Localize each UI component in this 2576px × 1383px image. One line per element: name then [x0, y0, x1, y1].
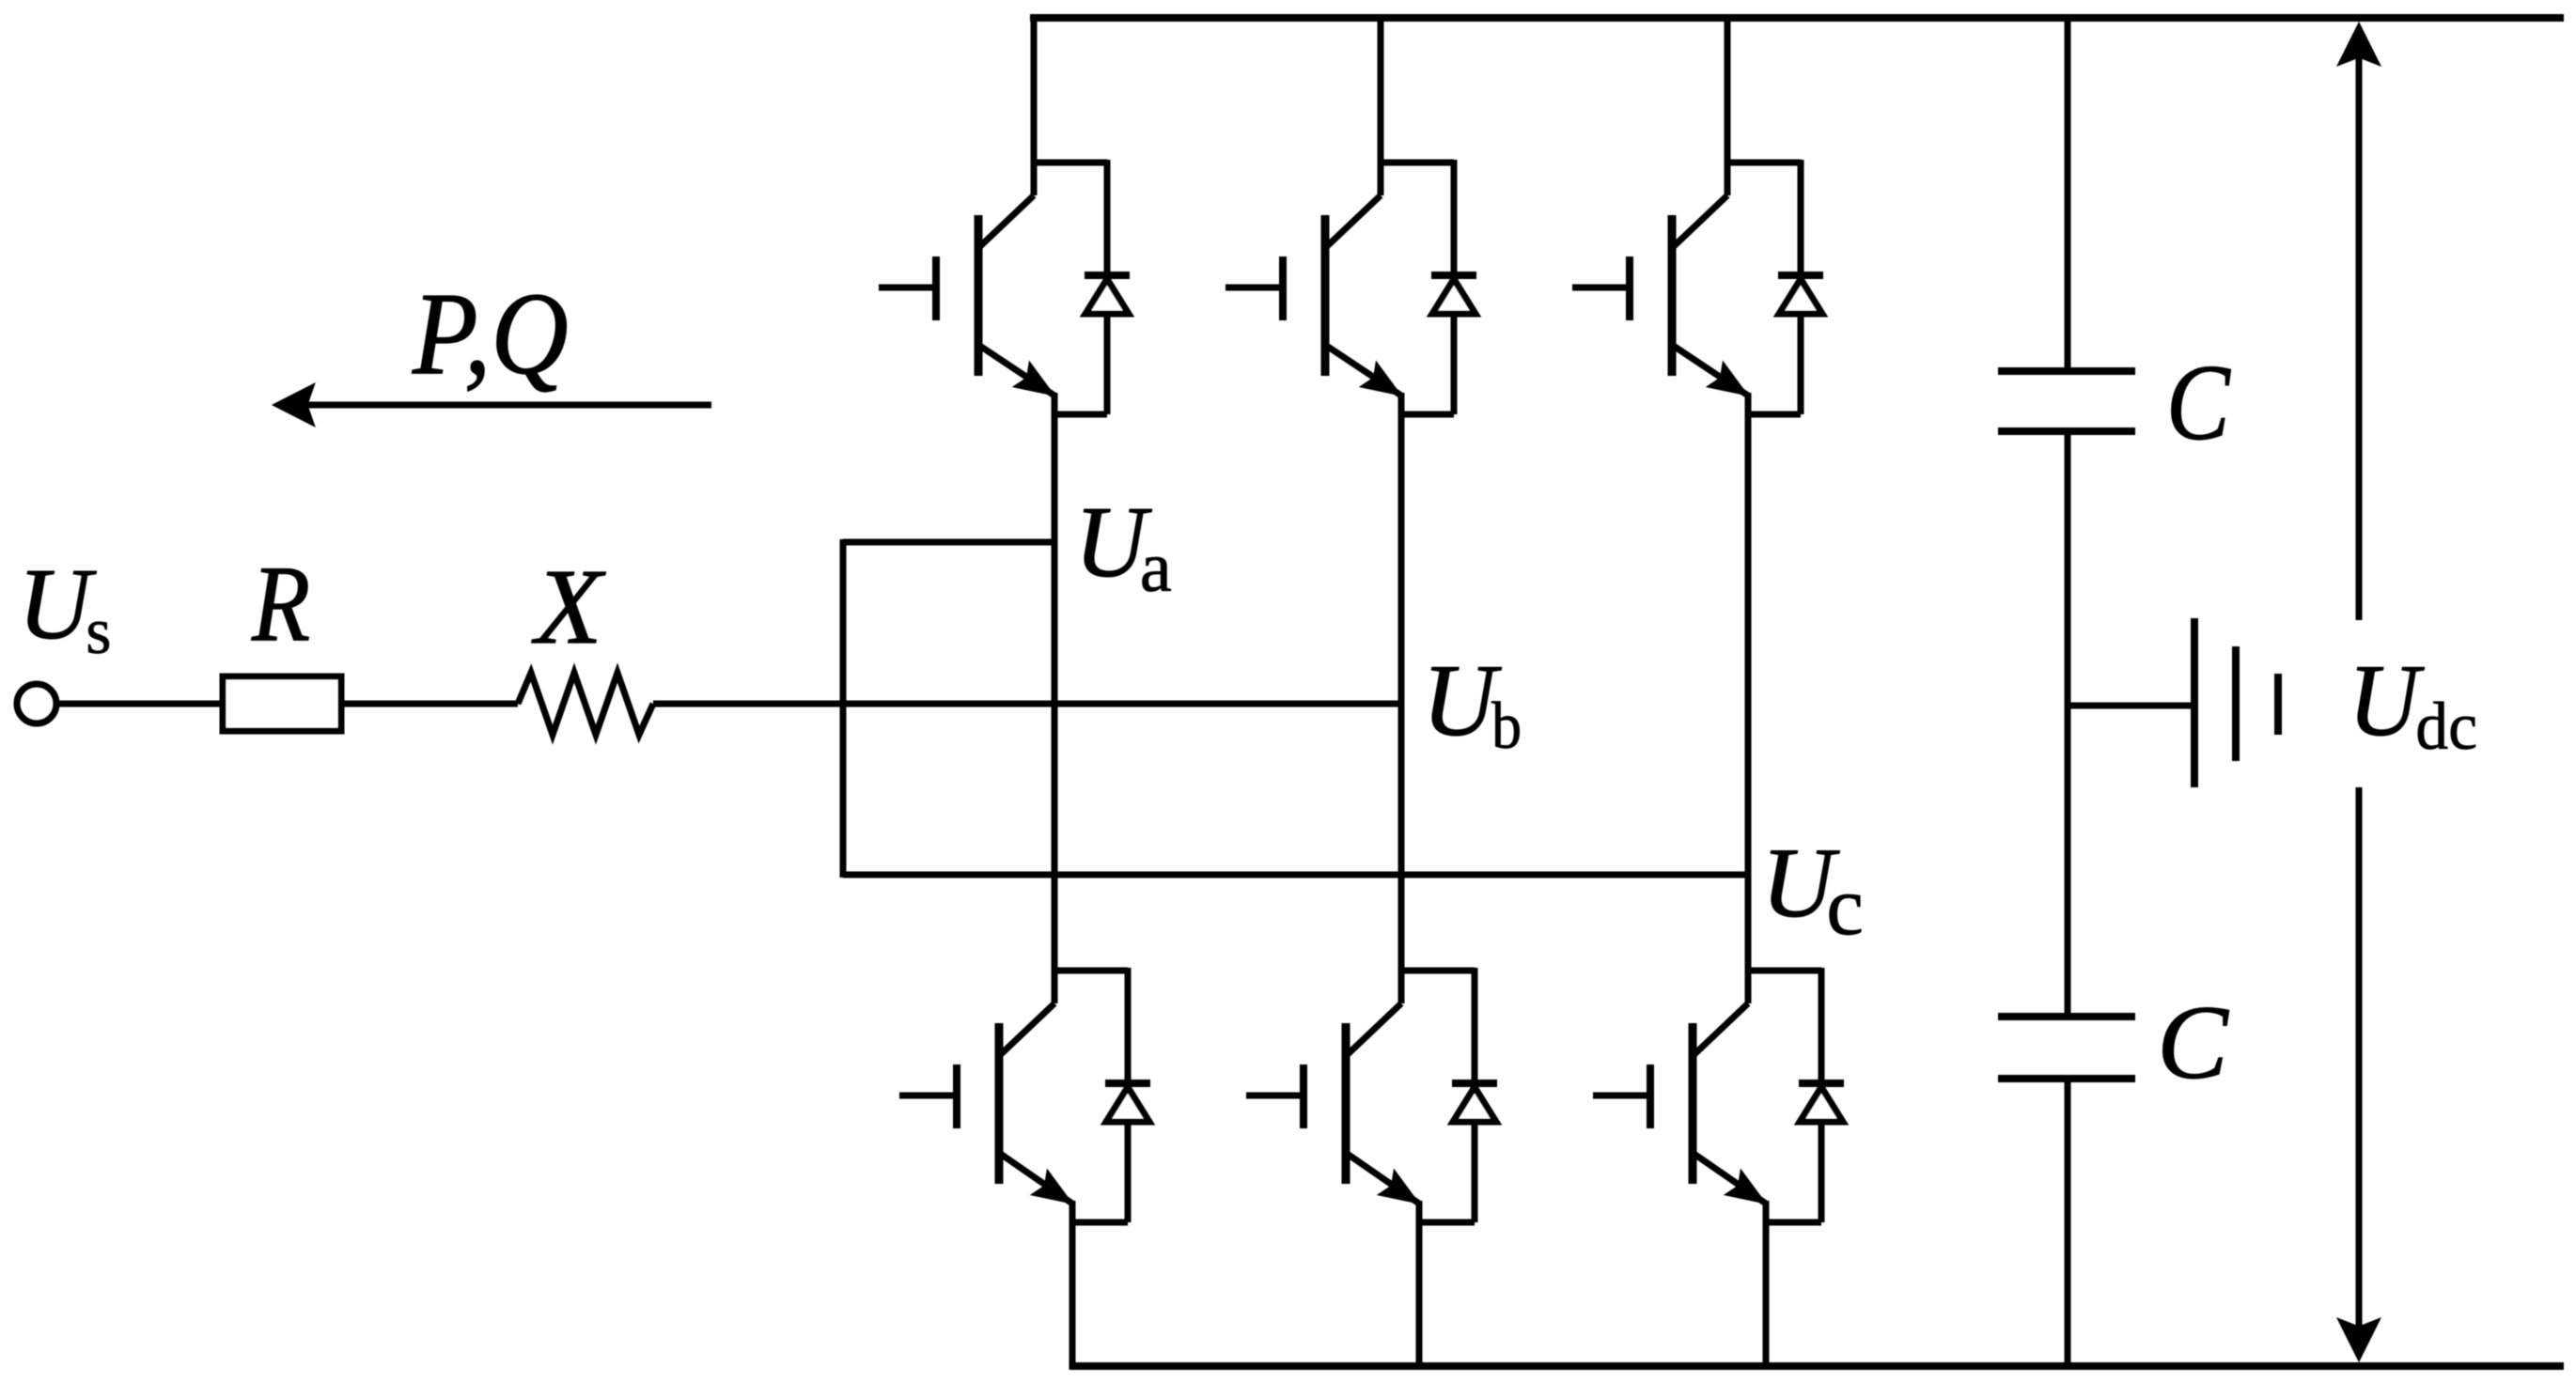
transistor Q4 gate bar — [953, 1064, 960, 1128]
transistor Q2 collector diagonal — [1325, 195, 1381, 248]
transistor Q5 collector diagonal — [1346, 1003, 1401, 1056]
wire resistor R to inductor X — [341, 701, 518, 707]
wire collector entry Q2 — [1378, 18, 1384, 195]
transistor Q3 collector diagonal — [1672, 195, 1727, 248]
transistor Q4 collector diagonal — [999, 1003, 1054, 1056]
transistor Q2 gate bar — [1279, 256, 1287, 320]
diode Q1 triangle — [1085, 279, 1129, 314]
wire diode branch Q4 — [1125, 968, 1132, 1222]
label C (lower capacitor) — [2157, 985, 2229, 1101]
wire phase leg mid (Q3-Q6) — [1745, 414, 1752, 973]
svg-text:R: R — [251, 543, 310, 663]
wire splitter vertical (phase tap) — [840, 539, 847, 878]
transistor Q6 gate bar — [1647, 1064, 1654, 1128]
svg-text:dc: dc — [2415, 690, 2477, 764]
transistor Q2 body bar — [1321, 215, 1330, 376]
wire diode branch Q3 — [1798, 160, 1804, 414]
svg-text:X: X — [531, 547, 606, 666]
diode Q3 cathode bar — [1778, 272, 1823, 279]
transistor Q3 emitter diagonal — [1672, 345, 1748, 396]
transistor Q1 gate lead — [879, 285, 936, 291]
svg-text:s: s — [86, 596, 111, 668]
wire phase leg mid (Q1-Q4) — [1052, 414, 1058, 973]
diode Q3 triangle — [1779, 279, 1822, 314]
transistor Q1 emitter diagonal — [978, 345, 1054, 396]
label C (upper capacitor) — [2166, 342, 2231, 462]
wire collector-diode link Q3 — [1725, 160, 1801, 166]
diode Q6 triangle — [1800, 1087, 1843, 1122]
battery plate short — [2274, 674, 2282, 735]
diode Q2 triangle — [1432, 279, 1475, 314]
diode Q1 cathode bar — [1085, 272, 1130, 279]
wire emitter corner Q6 — [1763, 1201, 1770, 1222]
wire diode branch Q2 — [1451, 160, 1458, 414]
wire collector-diode link Q4 — [1052, 968, 1128, 974]
svg-text:b: b — [1491, 689, 1522, 763]
node U_b label — [1422, 644, 1522, 763]
label U_s — [18, 549, 111, 668]
wire X to node U_b (phase b line) — [653, 701, 1401, 707]
terminal circle (source U_s) — [17, 684, 56, 723]
wire emitter corner Q3 — [1745, 393, 1752, 414]
wire emitter-diode link Q2 — [1398, 412, 1454, 418]
resistor R — [223, 676, 341, 731]
transistor Q3 gate bar — [1626, 256, 1633, 320]
svg-text:C: C — [2157, 985, 2229, 1101]
wire to node U_c (phase c line) — [843, 872, 1748, 878]
diode Q5 cathode bar — [1452, 1080, 1497, 1087]
wire collector-diode link Q1 — [1031, 160, 1107, 166]
label X — [531, 547, 606, 666]
wire capacitor branch lower — [2065, 1079, 2071, 1366]
wire capacitor branch middle — [2065, 431, 2071, 1017]
battery plate long — [2191, 618, 2198, 787]
wire terminal to resistor R — [56, 701, 222, 707]
transistor Q5 gate lead — [1246, 1093, 1304, 1099]
transistor Q4 emitter diagonal — [999, 1153, 1072, 1204]
transistor Q2 emitter arrowhead — [1360, 362, 1401, 396]
wire emitter Q4 to bottom bus — [1069, 1220, 1076, 1370]
transistor Q6 gate lead — [1593, 1093, 1650, 1099]
transistor Q5 emitter diagonal — [1346, 1153, 1419, 1204]
diode Q4 triangle — [1106, 1087, 1149, 1122]
wire collector entry Q1 — [1031, 18, 1038, 195]
wire top DC bus (+) — [1030, 14, 2564, 22]
wire emitter-diode link Q4 — [1069, 1220, 1128, 1226]
wire bottom DC bus (-) — [1070, 1362, 2564, 1370]
diode Q6 cathode bar — [1799, 1080, 1844, 1087]
diode Q4 cathode bar — [1105, 1080, 1150, 1087]
wire emitter-diode link Q1 — [1052, 412, 1107, 418]
svg-text:U: U — [1422, 644, 1502, 757]
wire emitter Q6 to bottom bus — [1763, 1220, 1770, 1370]
wire collector entry Q3 — [1725, 18, 1731, 195]
transistor Q4 body bar — [995, 1023, 1004, 1184]
wire emitter corner Q4 — [1069, 1201, 1076, 1222]
transistor Q6 body bar — [1689, 1023, 1697, 1184]
svg-text:U: U — [2349, 645, 2425, 758]
arrow U_dc upper (to + bus) — [2337, 23, 2381, 620]
svg-text:c: c — [1826, 861, 1863, 953]
node U_c label — [1761, 829, 1864, 954]
transistor Q4 gate lead — [899, 1093, 957, 1099]
arrow P,Q (power flow, pointing left) — [273, 383, 711, 427]
battery plate medium — [2232, 646, 2240, 761]
transistor Q5 emitter arrowhead — [1378, 1170, 1419, 1204]
label U_dc — [2349, 645, 2477, 764]
transistor Q6 emitter arrowhead — [1725, 1170, 1766, 1204]
transistor Q6 collector diagonal — [1693, 1003, 1748, 1056]
wire collector-diode link Q2 — [1378, 160, 1454, 166]
capacitor C1 plates — [1998, 371, 2135, 431]
wire collector entry Q4 — [1052, 968, 1058, 1003]
wire diode branch Q5 — [1472, 968, 1478, 1222]
arrow U_dc lower (to - bus) — [2337, 787, 2381, 1361]
wire emitter corner Q1 — [1052, 393, 1058, 414]
wire diode branch Q1 — [1104, 160, 1111, 414]
wire capacitor branch upper — [2065, 18, 2071, 371]
wire collector entry Q5 — [1398, 968, 1405, 1003]
wire emitter-diode link Q5 — [1416, 1220, 1475, 1226]
transistor Q1 body bar — [975, 215, 983, 376]
transistor Q3 emitter arrowhead — [1707, 362, 1748, 396]
transistor Q3 gate lead — [1572, 285, 1630, 291]
transistor Q1 emitter arrowhead — [1013, 362, 1054, 396]
wire collector entry Q6 — [1745, 968, 1752, 1003]
svg-text:P,Q: P,Q — [412, 269, 569, 398]
wire collector-diode link Q6 — [1745, 968, 1821, 974]
label P,Q — [412, 269, 569, 398]
inductor X (zigzag) — [518, 673, 653, 735]
svg-text:C: C — [2166, 342, 2231, 462]
transistor Q1 collector diagonal — [978, 195, 1034, 248]
node U_a label — [1075, 487, 1172, 607]
wire emitter corner Q5 — [1416, 1201, 1423, 1222]
transistor Q5 gate bar — [1300, 1064, 1307, 1128]
transistor Q6 emitter diagonal — [1693, 1153, 1766, 1204]
transistor Q2 emitter diagonal — [1325, 345, 1401, 396]
transistor Q4 emitter arrowhead — [1031, 1170, 1072, 1204]
wire phase leg mid (Q2-Q5) — [1398, 414, 1405, 973]
wire emitter-diode link Q6 — [1763, 1220, 1821, 1226]
wire to node U_a (phase a line) — [843, 539, 1055, 546]
wire emitter-diode link Q3 — [1745, 412, 1801, 418]
wire emitter corner Q2 — [1398, 393, 1405, 414]
label R — [251, 543, 310, 663]
capacitor C2 plates — [1998, 1017, 2135, 1079]
transistor Q3 body bar — [1668, 215, 1677, 376]
wire collector-diode link Q5 — [1398, 968, 1475, 974]
transistor Q5 body bar — [1342, 1023, 1350, 1184]
diode Q2 cathode bar — [1431, 272, 1476, 279]
wire to battery — [2068, 703, 2192, 709]
transistor Q1 gate bar — [932, 256, 940, 320]
wire diode branch Q6 — [1819, 968, 1825, 1222]
svg-text:a: a — [1140, 527, 1172, 607]
wire emitter Q5 to bottom bus — [1416, 1220, 1423, 1370]
transistor Q2 gate lead — [1226, 285, 1283, 291]
diode Q5 triangle — [1453, 1087, 1496, 1122]
